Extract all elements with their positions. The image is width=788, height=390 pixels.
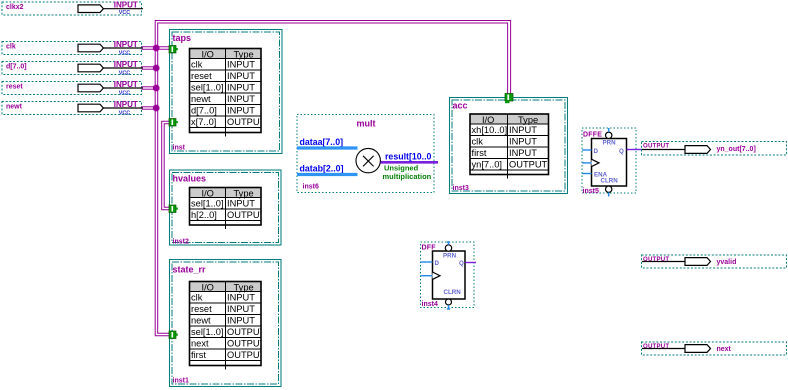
taps pin 2 (x out conduit port): [169, 119, 178, 127]
junction newt: [153, 105, 160, 112]
wire Q to yn_out: [627, 149, 643, 151]
CLRN bubble: [606, 186, 612, 192]
svg-text:INPUT: INPUT: [509, 136, 537, 146]
svg-text:DFFE: DFFE: [583, 132, 602, 139]
svg-text:Type: Type: [234, 188, 254, 198]
svg-text:I/O: I/O: [202, 188, 214, 198]
wire conduit reset to junction: [142, 87, 158, 89]
PRN bubble: [445, 245, 451, 251]
DFF body: [433, 251, 466, 299]
svg-text:I/O: I/O: [482, 115, 494, 125]
wire clock stub: [421, 275, 433, 277]
svg-text:sel[1..0]: sel[1..0]: [191, 198, 224, 208]
PRN stub: [608, 128, 610, 132]
svg-text:clkx2: clkx2: [6, 4, 24, 11]
svg-text:INPUT: INPUT: [227, 292, 255, 302]
svg-text:INPUT: INPUT: [509, 148, 537, 158]
output pin next: [642, 342, 787, 355]
svg-text:PRN: PRN: [443, 253, 457, 260]
input pin d[7..0]: [2, 60, 143, 77]
junction reset: [153, 85, 160, 92]
wire datab bus: [297, 173, 358, 176]
input pin reset: [2, 80, 143, 97]
flip-flop DFFE U-inst5: [582, 128, 642, 197]
svg-text:INPUT: INPUT: [227, 315, 255, 325]
svg-text:acc: acc: [453, 101, 468, 111]
hvalues pin (sel conduit port): [169, 205, 178, 213]
svg-text:newt: newt: [191, 94, 211, 104]
PRN stub: [448, 242, 450, 245]
wire conduit newt to junction: [142, 107, 158, 109]
svg-text:D: D: [594, 148, 599, 155]
svg-text:INPUT: INPUT: [227, 82, 255, 92]
svg-text:OUTPUT: OUTPUT: [227, 338, 266, 348]
svg-text:OUTPUT: OUTPUT: [227, 327, 266, 337]
svg-text:INPUT: INPUT: [509, 125, 537, 135]
svg-text:inst1: inst1: [173, 378, 189, 385]
svg-text:hvalues: hvalues: [173, 174, 207, 184]
svg-text:OUTPUT: OUTPUT: [227, 350, 266, 360]
svg-text:clk: clk: [472, 136, 484, 146]
wire result bus: [381, 161, 439, 164]
svg-text:yvalid: yvalid: [717, 259, 737, 266]
svg-text:d[7..0]: d[7..0]: [191, 105, 217, 115]
svg-text:OUTPUT: OUTPUT: [509, 159, 548, 169]
block mult (lpm_mult): [297, 115, 438, 193]
svg-text:INPUT: INPUT: [114, 1, 138, 10]
taps I/O table: [190, 49, 266, 137]
wire clock stub: [582, 162, 592, 164]
svg-text:Type: Type: [234, 282, 254, 292]
svg-text:INPUT: INPUT: [227, 198, 255, 208]
state_rr pin (sel conduit port): [169, 331, 178, 339]
wire conduit taps.x to hvalues pair: [162, 121, 169, 209]
svg-text:result[10..0: result[10..0: [385, 152, 432, 162]
svg-text:sel[1..0]: sel[1..0]: [191, 327, 224, 337]
block taps: [170, 30, 283, 154]
PRN bubble: [606, 132, 612, 138]
svg-text:yn_out[7..0]: yn_out[7..0]: [717, 146, 756, 153]
junction clk: [153, 45, 160, 52]
input pin newt: [2, 100, 143, 117]
DFFE body: [592, 139, 627, 187]
svg-text:xh[10..0]: xh[10..0]: [472, 125, 508, 135]
wire conduit clk-to-taps horizontal pair: [142, 47, 170, 49]
output pin yvalid: [642, 255, 787, 268]
svg-text:VCC: VCC: [119, 71, 130, 77]
wire Q stub: [465, 262, 476, 264]
svg-text:INPUT: INPUT: [114, 80, 138, 89]
svg-text:inst: inst: [173, 145, 186, 152]
svg-text:clk: clk: [6, 44, 16, 51]
acc top pin (conduit port): [505, 94, 513, 104]
svg-text:INPUT: INPUT: [114, 40, 138, 49]
svg-text:inst3: inst3: [453, 185, 469, 192]
svg-text:D: D: [435, 260, 440, 267]
svg-text:I/O: I/O: [202, 282, 214, 292]
wire D stub: [582, 149, 592, 151]
svg-text:Type: Type: [518, 115, 538, 125]
svg-text:next: next: [717, 346, 732, 353]
input pin clk: [2, 40, 143, 57]
svg-text:state_rr: state_rr: [173, 265, 207, 275]
svg-text:CLRN: CLRN: [601, 178, 619, 185]
input pin clkx2: [2, 1, 143, 17]
svg-text:yn[7..0]: yn[7..0]: [472, 159, 503, 169]
block acc: [450, 98, 568, 194]
svg-text:reset: reset: [191, 304, 212, 314]
svg-text:INPUT: INPUT: [227, 71, 255, 81]
acc I/O table: [470, 114, 549, 179]
svg-text:OUTPUT: OUTPUT: [643, 143, 669, 150]
svg-text:newt: newt: [6, 104, 23, 111]
svg-text:I/O: I/O: [202, 49, 214, 59]
svg-text:multiplication: multiplication: [383, 172, 432, 181]
svg-text:PRN: PRN: [603, 140, 617, 147]
svg-text:INPUT: INPUT: [227, 105, 255, 115]
CLRN stub: [448, 305, 450, 310]
svg-text:reset: reset: [6, 84, 23, 91]
svg-text:VCC: VCC: [119, 111, 130, 117]
svg-text:taps: taps: [173, 33, 192, 43]
svg-text:d[7..0]: d[7..0]: [6, 64, 27, 71]
svg-text:OUTPUT: OUTPUT: [227, 210, 266, 220]
output pin yn_out[7..0]: [642, 142, 787, 156]
svg-text:VCC: VCC: [119, 10, 130, 16]
hvalues I/O table: [190, 188, 266, 230]
svg-text:Q: Q: [619, 148, 624, 155]
svg-text:dataa[7..0]: dataa[7..0]: [300, 137, 344, 147]
svg-text:first: first: [191, 350, 206, 360]
wire D stub: [421, 261, 433, 263]
state_rr I/O table: [190, 282, 266, 370]
svg-text:datab[2..0]: datab[2..0]: [300, 164, 344, 174]
svg-text:VCC: VCC: [119, 51, 130, 57]
svg-text:sel[1..0]: sel[1..0]: [191, 82, 224, 92]
svg-text:OUTPUT: OUTPUT: [227, 117, 266, 127]
svg-text:h[2..0]: h[2..0]: [191, 210, 217, 220]
block state_rr: [170, 260, 282, 387]
svg-text:next: next: [191, 338, 209, 348]
svg-text:x[7..0]: x[7..0]: [191, 117, 216, 127]
svg-text:clk: clk: [191, 59, 203, 69]
flip-flop DFF U-inst4: [421, 242, 477, 310]
svg-text:inst6: inst6: [303, 184, 319, 191]
svg-text:INPUT: INPUT: [114, 60, 138, 69]
taps pin 1 (clk conduit port): [169, 46, 178, 54]
svg-text:clk: clk: [191, 292, 203, 302]
junction d: [153, 65, 160, 72]
wire dataa bus: [297, 146, 358, 149]
svg-text:Type: Type: [234, 49, 254, 59]
clock triangle: [592, 159, 600, 166]
svg-text:inst4: inst4: [422, 301, 438, 308]
svg-text:inst5: inst5: [583, 188, 599, 195]
svg-text:reset: reset: [191, 71, 212, 81]
multiplier circle: [356, 148, 380, 172]
svg-text:inst2: inst2: [173, 239, 189, 246]
svg-text:Q: Q: [459, 260, 464, 267]
wire conduit d to junction: [142, 67, 158, 69]
svg-text:newt: newt: [191, 315, 211, 325]
svg-text:mult: mult: [357, 119, 376, 129]
wire main vertical conduit pair (clk bus) with top run to acc: [155, 21, 510, 336]
svg-text:INPUT: INPUT: [227, 94, 255, 104]
clock triangle: [433, 272, 441, 279]
CLRN stub: [608, 192, 610, 196]
svg-text:INPUT: INPUT: [227, 59, 255, 69]
svg-text:CLRN: CLRN: [444, 289, 462, 296]
CLRN bubble: [446, 299, 452, 305]
svg-text:first: first: [472, 148, 487, 158]
wire ENA stub: [582, 173, 592, 175]
svg-text:INPUT: INPUT: [114, 100, 138, 109]
svg-text:VCC: VCC: [119, 91, 130, 97]
svg-text:INPUT: INPUT: [227, 304, 255, 314]
block hvalues: [170, 170, 282, 246]
